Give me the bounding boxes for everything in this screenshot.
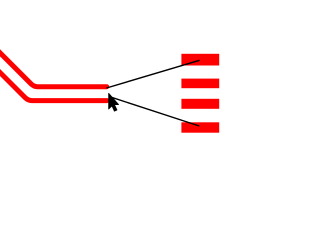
wire: lower thin black leader line [110,97,199,126]
mouse cursor arrow [109,93,119,111]
red dash bar 1 [181,54,219,66]
wire: lower red road line (diagonal then horizontal) [0,67,107,101]
red dash bar 2 [181,79,219,89]
wire: upper thin black leader line [107,60,200,88]
red dash bar 3 [181,99,219,109]
wire: upper red road line (diagonal then horizontal) [0,47,107,87]
red dash bar 4 [181,122,219,132]
